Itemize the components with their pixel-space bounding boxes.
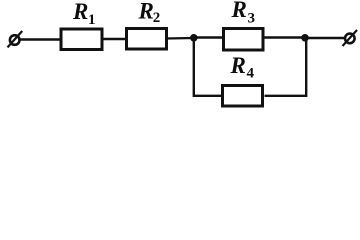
svg-text:3: 3 [248, 10, 256, 26]
svg-text:R: R [72, 0, 88, 24]
svg-text:R: R [138, 0, 154, 24]
svg-text:R: R [231, 0, 247, 22]
svg-text:4: 4 [247, 66, 255, 82]
svg-text:2: 2 [153, 10, 161, 26]
svg-text:1: 1 [88, 12, 96, 28]
svg-text:R: R [230, 53, 246, 78]
